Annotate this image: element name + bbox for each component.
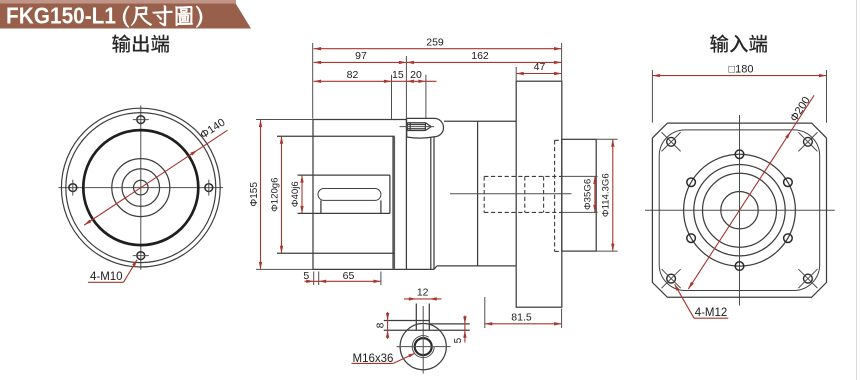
page right border	[856, 0, 858, 380]
input flange plate	[516, 81, 562, 307]
svg-text:82: 82	[347, 69, 359, 81]
svg-text:20: 20	[410, 69, 422, 81]
6 bolt holes	[735, 150, 744, 159]
center line	[450, 193, 572, 195]
hidden bore dashed	[484, 175, 562, 177]
svg-text:65: 65	[343, 270, 355, 282]
title output end 输出端	[112, 34, 169, 52]
extension lines 5 65	[313, 272, 315, 286]
dim 82 15 20	[314, 80, 437, 82]
svg-text:5: 5	[453, 337, 464, 343]
dim phi155	[260, 120, 262, 270]
thick face band	[392, 137, 395, 269]
svg-text:97: 97	[355, 50, 367, 62]
shaft end centerlines	[397, 346, 451, 348]
left view inner circles	[112, 159, 170, 217]
clamp tab	[407, 118, 444, 138]
center circles	[684, 154, 796, 266]
svg-text:15: 15	[392, 69, 404, 81]
tapped hole M16	[415, 338, 432, 355]
keyway slot	[318, 189, 381, 201]
corner holes 4-M12	[667, 137, 676, 146]
dim phi40j6	[301, 175, 303, 213]
svg-text:Φ35G6: Φ35G6	[583, 179, 594, 210]
dim phi140 line	[84, 130, 227, 225]
svg-text:Φ140: Φ140	[198, 117, 227, 142]
svg-text:81.5: 81.5	[511, 312, 532, 324]
svg-text:FKG150-L1: FKG150-L1	[6, 2, 116, 28]
clamp bolt	[407, 122, 425, 124]
joint line at body step	[433, 137, 435, 269]
svg-text:4-M10: 4-M10	[90, 271, 123, 283]
dim 81.5	[484, 297, 486, 328]
left view 4 bolt holes 4-M10	[137, 116, 145, 124]
extension lines for phi114.3G6	[596, 138, 617, 140]
right view centerlines	[645, 209, 835, 211]
svg-text:162: 162	[471, 50, 489, 62]
svg-text:Φ200: Φ200	[788, 95, 813, 124]
joint line at collar right	[430, 137, 432, 269]
svg-text:4-M12: 4-M12	[695, 307, 728, 319]
svg-text:□180: □180	[729, 64, 754, 76]
dim 5 65	[305, 280, 381, 282]
dim 12	[404, 298, 442, 300]
dim square180	[652, 75, 826, 77]
joint line mid body	[477, 121, 479, 266]
dim square180 extension lines	[651, 70, 653, 123]
svg-text:12: 12	[417, 287, 429, 299]
left view thick circle	[83, 130, 198, 245]
phi120 spigot lines	[277, 135, 395, 137]
dim phi35G6	[594, 176, 596, 212]
svg-text:Φ155: Φ155	[249, 182, 260, 207]
extension lines for phi35G6	[562, 175, 598, 177]
dim phi200 line	[688, 95, 814, 289]
banner	[0, 3, 251, 28]
svg-text:Φ114.3G6: Φ114.3G6	[601, 173, 612, 217]
dim 259	[314, 48, 562, 50]
svg-text:8: 8	[376, 322, 387, 328]
keyway slot end view	[415, 304, 417, 331]
banner subtitle (尺寸圖)	[123, 5, 202, 27]
dim phi120g6	[281, 136, 283, 253]
banner top strip	[0, 0, 236, 3]
dim 47	[516, 73, 561, 75]
pilot boss phi114.3	[562, 139, 596, 251]
left view centerlines	[59, 187, 224, 189]
dim 8	[387, 312, 389, 339]
phi155 extension lines	[256, 119, 313, 121]
svg-text:47: 47	[534, 61, 546, 73]
svg-text:Φ40j6: Φ40j6	[290, 181, 301, 207]
dim phi114.3G6	[612, 139, 614, 251]
middle view left housing phi155	[313, 120, 434, 270]
left view outer circle	[61, 108, 220, 267]
svg-text:Φ120g6: Φ120g6	[270, 178, 281, 212]
output shaft phi40 lines	[298, 174, 391, 176]
svg-text:259: 259	[426, 36, 444, 48]
input flange inner rounded square	[659, 130, 820, 291]
middle view main body	[434, 121, 516, 269]
shaft end circle	[400, 324, 446, 370]
svg-text:5: 5	[303, 270, 309, 282]
input flange outer square	[652, 123, 826, 297]
dim 97	[314, 61, 562, 63]
left view second circle	[66, 113, 216, 263]
dim 5 keyway	[464, 316, 466, 343]
title input end 输入端	[710, 34, 767, 52]
joint line at housing rear	[405, 118, 407, 269]
shaft end face	[389, 175, 391, 213]
extension lines top	[312, 43, 314, 119]
